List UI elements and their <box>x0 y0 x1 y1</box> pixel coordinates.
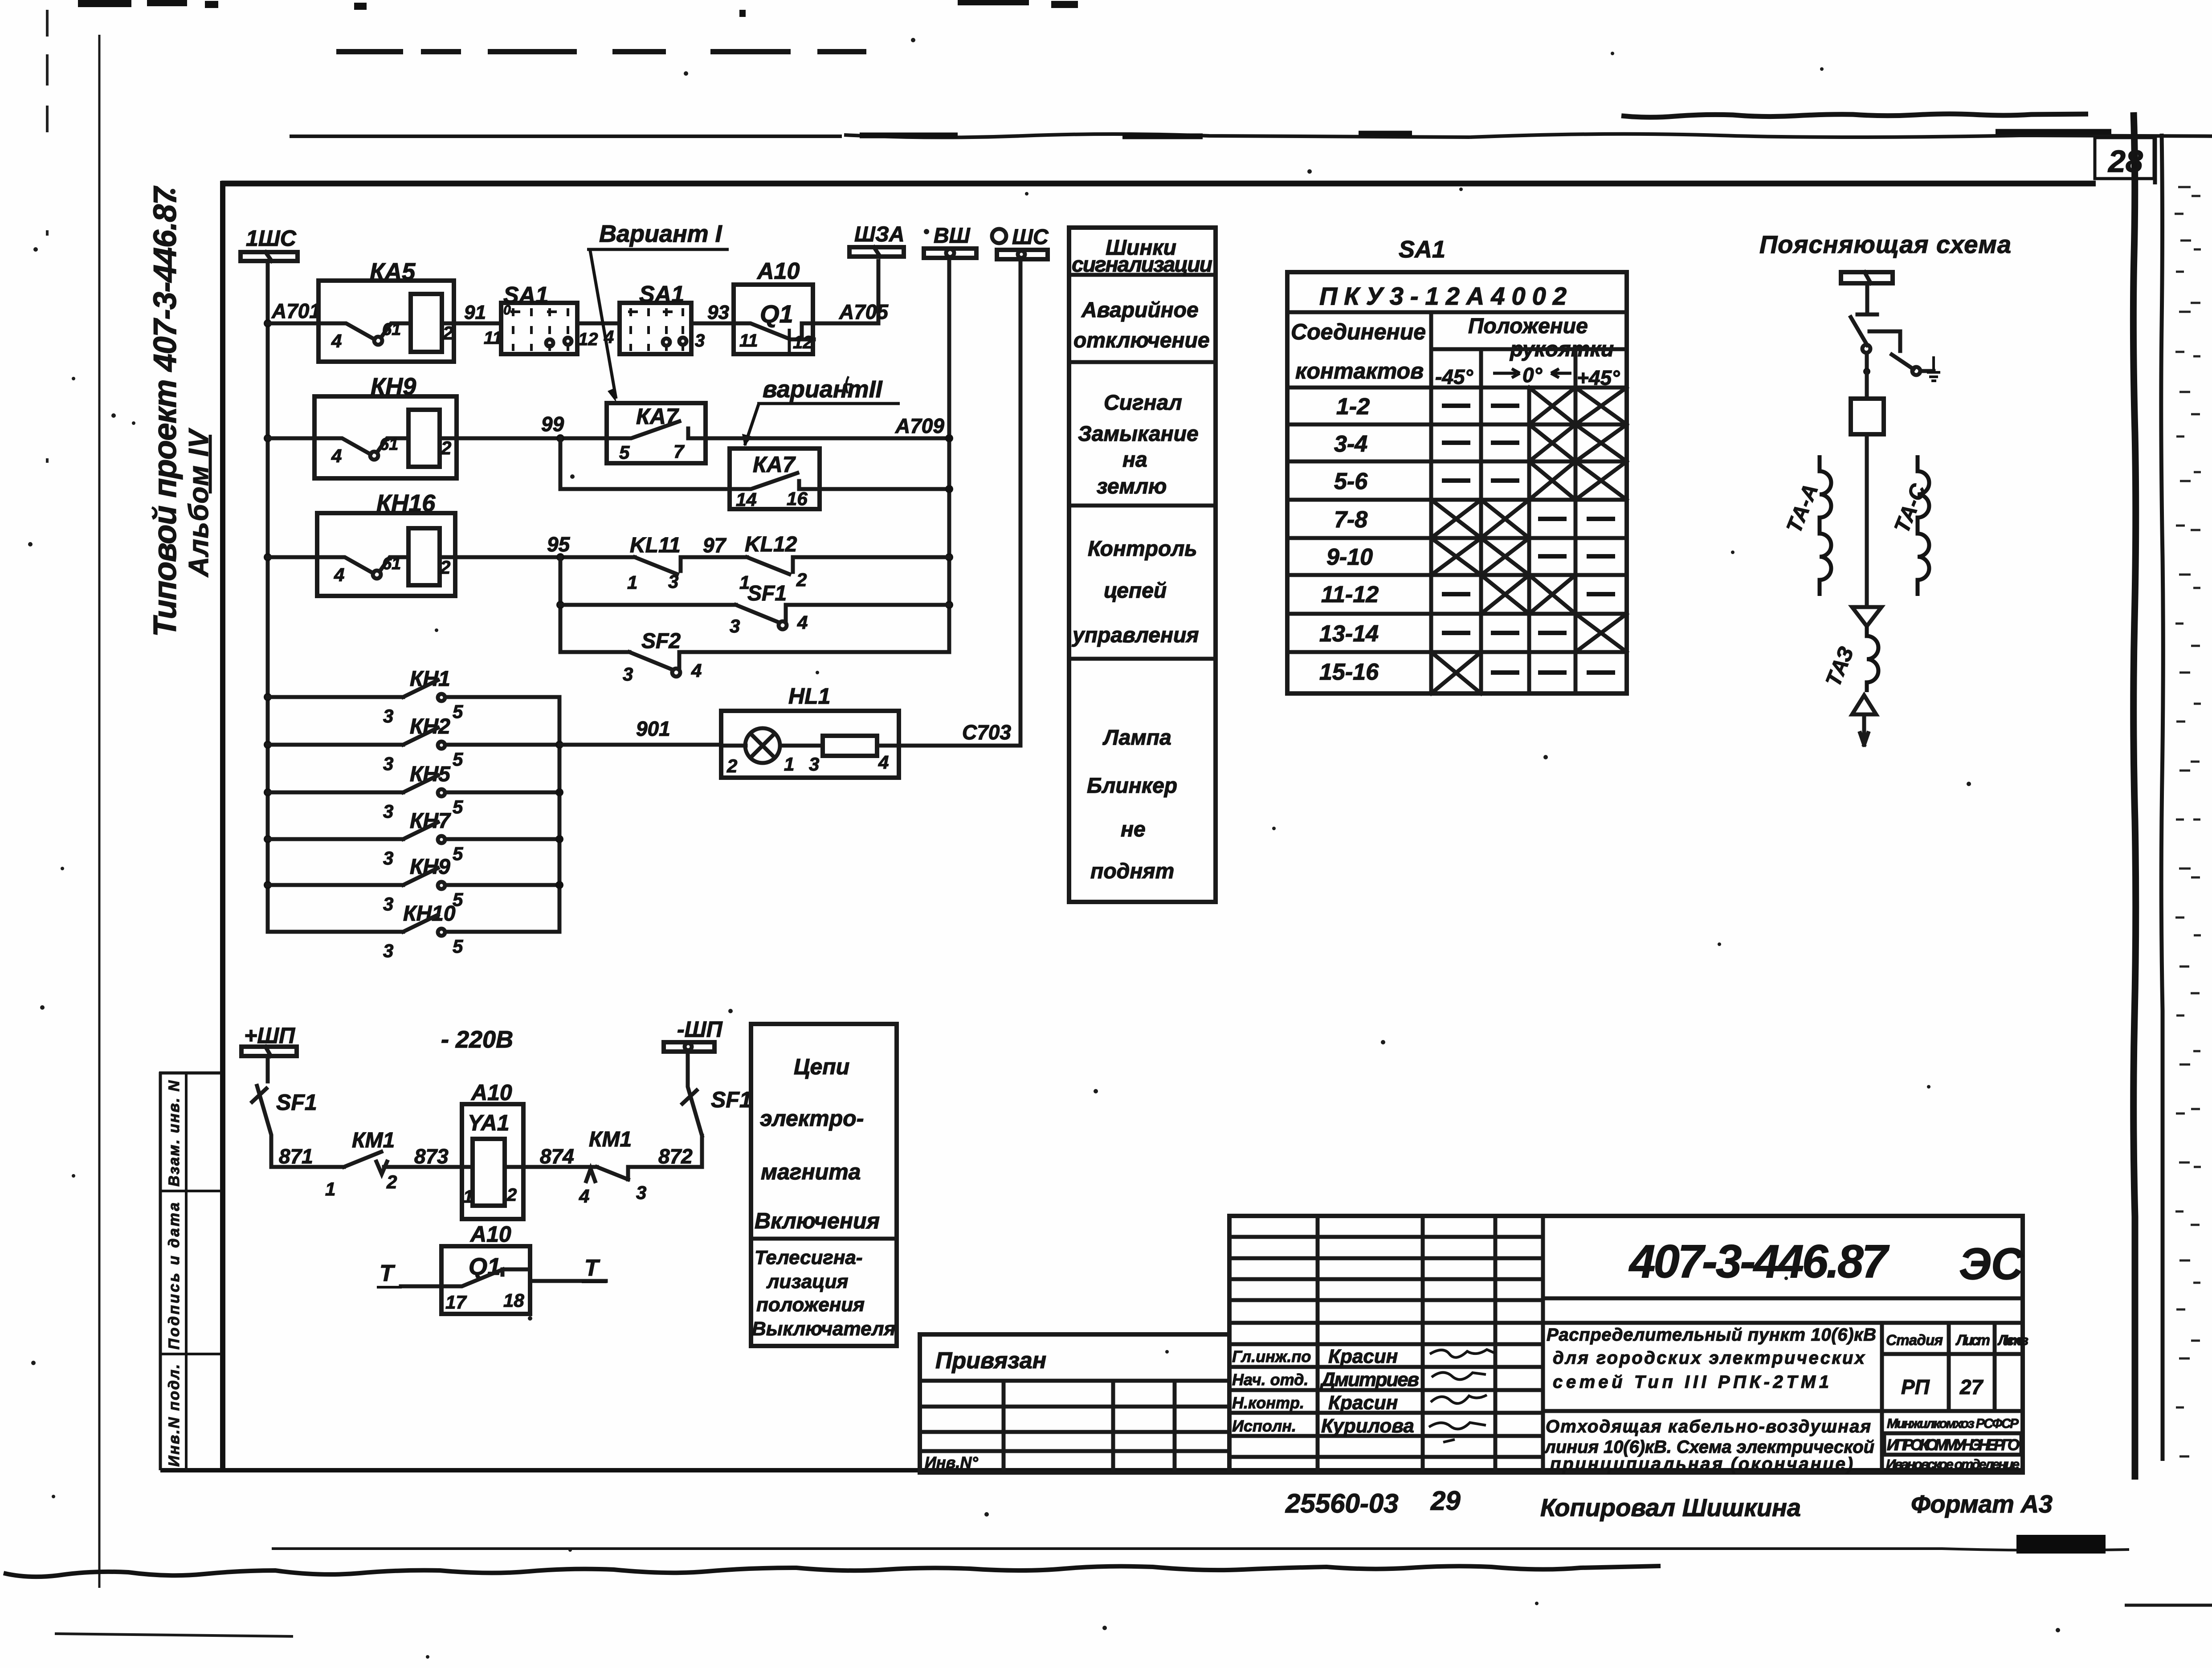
svg-text:9-10: 9-10 <box>1326 544 1373 570</box>
svg-text:7-8: 7-8 <box>1334 507 1367 533</box>
right edge hatch noise <box>2175 187 2201 1456</box>
svg-text:Сигнал: Сигнал <box>1104 391 1182 415</box>
svg-text:КН9: КН9 <box>371 373 416 400</box>
bus +ShP bar <box>241 1047 297 1056</box>
stamp strip inner divider <box>185 1072 188 1470</box>
svg-text:1: 1 <box>784 754 794 775</box>
org box <box>1884 1433 2021 1455</box>
node subladder SF1 <box>556 601 564 609</box>
svg-text:3: 3 <box>730 616 740 636</box>
signature 1 <box>1430 1350 1495 1358</box>
svg-text:Аварийное: Аварийное <box>1081 298 1199 322</box>
wire KH1 row <box>268 695 403 699</box>
breaker contact SF2 <box>623 629 702 685</box>
svg-text:18: 18 <box>503 1290 524 1311</box>
node KH9L <box>264 881 272 889</box>
SA1 dashes col2 <box>1491 406 1519 673</box>
svg-text:97: 97 <box>703 534 727 557</box>
wire to junction <box>1865 353 1869 371</box>
SA1 dashes col3 <box>1538 519 1567 673</box>
svg-text:Соединение: Соединение <box>1291 319 1426 344</box>
TITLEBLOCK <box>920 1216 2053 1521</box>
svg-text:Красин: Красин <box>1328 1346 1398 1367</box>
node row2 <box>264 434 272 442</box>
svg-text:1-2: 1-2 <box>1336 394 1370 420</box>
wire 901 <box>559 743 721 747</box>
svg-text:5: 5 <box>453 843 463 864</box>
node VSh KL <box>945 553 953 561</box>
svg-text:5: 5 <box>453 749 463 770</box>
svg-text:лизация: лизация <box>766 1271 848 1293</box>
wire 99 <box>457 436 607 440</box>
stamp strip divider 1 <box>159 1190 221 1192</box>
SIGNALBOX <box>1069 228 1216 902</box>
wire 95 row3 <box>268 555 317 559</box>
contactor contact KM1 second <box>579 1128 646 1207</box>
svg-text:поднят: поднят <box>1090 860 1174 883</box>
breaker SF1 left <box>252 1086 317 1167</box>
svg-text:ЭС: ЭС <box>1959 1239 2024 1289</box>
svg-text:874: 874 <box>540 1145 574 1168</box>
wire T right <box>530 1279 606 1283</box>
svg-text:цепей: цепей <box>1104 579 1167 603</box>
button contact KH7 <box>383 809 463 869</box>
bus 1ShS bar <box>241 252 298 261</box>
wire 871 <box>271 1165 344 1169</box>
svg-text:901: 901 <box>636 717 670 740</box>
solenoid YA1 box A10 <box>462 1080 523 1219</box>
LOWERLEFT <box>241 1017 897 1346</box>
svg-text:Подпись и дата: Подпись и дата <box>166 1203 183 1350</box>
SCHEMATIC2 <box>268 667 1011 961</box>
earthing switch blade <box>1892 355 1914 369</box>
svg-text:сигнализации: сигнализации <box>1072 253 1212 277</box>
svg-text:3: 3 <box>383 801 393 822</box>
svg-text:28: 28 <box>2107 144 2143 179</box>
svg-text:РП: РП <box>1901 1375 1930 1399</box>
SA1 angle divider 2 <box>1574 349 1578 693</box>
node row1 <box>264 319 272 327</box>
svg-text:13-14: 13-14 <box>1319 621 1379 647</box>
node row3 <box>264 553 272 561</box>
wire 95 <box>455 555 635 559</box>
svg-text:SA1: SA1 <box>1399 236 1445 263</box>
breaker box <box>1851 399 1884 434</box>
svg-text:Ивановское отделение: Ивановское отделение <box>1886 1456 2020 1472</box>
SA1 body divider mid <box>1527 387 1531 693</box>
svg-text:11-12: 11-12 <box>1321 582 1379 608</box>
svg-text:Т: Т <box>380 1260 396 1286</box>
button contact KH2 <box>383 715 463 774</box>
title block upper row lines <box>1229 1237 1543 1300</box>
node earthing branch <box>1863 368 1870 375</box>
album underline <box>209 435 212 493</box>
node rail KH5 <box>555 788 563 796</box>
svg-text:Положение: Положение <box>1468 314 1588 338</box>
svg-text:15-16: 15-16 <box>1319 659 1379 685</box>
bottom-left stray line <box>55 1634 293 1636</box>
svg-text:Взам. инв. N: Взам. инв. N <box>166 1080 183 1187</box>
svg-text:отключение: отключение <box>1073 329 1210 352</box>
svg-text:ШЗА: ШЗА <box>854 223 905 246</box>
svg-text:Q1: Q1 <box>760 300 793 328</box>
svg-text:- 220В: - 220В <box>441 1026 513 1053</box>
svg-text:землю: землю <box>1097 475 1167 498</box>
node VSh SF1 <box>945 601 953 609</box>
svg-text:КН9: КН9 <box>410 855 450 879</box>
relay contact KL12 <box>739 533 807 593</box>
node variant branch <box>556 434 564 442</box>
svg-text:Инв.N подл.: Инв.N подл. <box>166 1364 183 1467</box>
svg-text:ШС: ШС <box>1012 225 1049 249</box>
svg-text:1ШС: 1ШС <box>246 226 297 251</box>
frame left heavy line <box>220 181 225 1471</box>
svg-text:ТА-С: ТА-С <box>1890 480 1931 536</box>
signal box header text <box>1072 236 1212 277</box>
svg-text:А709: А709 <box>895 414 944 437</box>
svg-text:Лист: Лист <box>1955 1332 1990 1348</box>
svg-text:Блинкер: Блинкер <box>1087 774 1177 798</box>
signature 2 <box>1432 1372 1486 1379</box>
wire A709 <box>706 436 949 440</box>
breaker contact SF1 <box>730 582 808 636</box>
svg-text:2: 2 <box>726 755 737 776</box>
svg-text:КН10: КН10 <box>403 902 456 926</box>
SA1 table outer box <box>1287 272 1627 693</box>
bus ShS bar <box>997 250 1048 259</box>
svg-text:1: 1 <box>463 1187 473 1207</box>
svg-text:Красин: Красин <box>1328 1392 1398 1414</box>
signal box divider 4 <box>1069 657 1216 661</box>
bus ShS circle symbol <box>992 229 1006 243</box>
wire KH right rail <box>558 697 562 932</box>
label T right underline <box>582 1281 607 1283</box>
svg-text:5: 5 <box>453 796 463 817</box>
svg-text:3: 3 <box>636 1182 646 1203</box>
wire KH7 right <box>445 837 559 841</box>
svg-text:КН2: КН2 <box>410 715 450 738</box>
cable termination lower <box>1852 695 1876 714</box>
svg-text:контактов: контактов <box>1295 359 1424 383</box>
torn top right wavy line <box>1621 114 2088 118</box>
explain bus stub <box>1857 283 1877 314</box>
cable termination upper <box>1852 607 1881 626</box>
svg-text:12: 12 <box>793 333 813 352</box>
small f mark <box>844 376 852 393</box>
breaker SF1 right <box>682 1052 752 1136</box>
svg-text:Исполн.: Исполн. <box>1232 1417 1296 1435</box>
breaker aux Q1 box A10 <box>734 285 814 354</box>
svg-text:5-6: 5-6 <box>1334 469 1368 494</box>
svg-text:Привязан: Привязан <box>935 1348 1046 1374</box>
feeder line <box>1865 434 1869 606</box>
wire SF2 to VSh rail <box>679 650 949 654</box>
svg-text:Гл.инж.по: Гл.инж.по <box>1232 1347 1311 1366</box>
wire KH7 row <box>268 837 403 841</box>
svg-text:2: 2 <box>796 569 807 590</box>
svg-text:KL12: KL12 <box>745 533 797 556</box>
svg-text:Копировал Шишкина: Копировал Шишкина <box>1540 1493 1801 1521</box>
title block stage header line <box>1882 1352 2023 1356</box>
top line smudges <box>860 132 2111 136</box>
svg-text:0°: 0° <box>1522 363 1543 387</box>
left page dashed border <box>46 10 49 463</box>
svg-text:4: 4 <box>331 330 342 351</box>
svg-text:4: 4 <box>331 445 342 466</box>
wire 874 <box>523 1165 597 1169</box>
svg-text:Замыкание: Замыкание <box>1078 422 1199 446</box>
svg-text:93: 93 <box>707 302 729 323</box>
bottom thin line <box>272 1549 2129 1550</box>
svg-text:А10: А10 <box>756 258 800 284</box>
svg-text:Т: Т <box>584 1255 600 1281</box>
wire 91 <box>454 322 501 326</box>
node VSh KA7II <box>945 485 953 493</box>
SA1 cross cells col3-4 rows 1-3 <box>1529 387 1627 500</box>
svg-text:4: 4 <box>579 1186 589 1207</box>
button contact KH10 <box>383 902 463 961</box>
relay contact KL11 <box>627 534 681 593</box>
wire T left <box>401 1285 441 1289</box>
svg-text:КН1: КН1 <box>410 667 450 691</box>
svg-text:2: 2 <box>506 1185 517 1205</box>
svg-text:1: 1 <box>627 572 637 593</box>
svg-text:Распределительный пункт 10(6)к: Распределительный пункт 10(6)кВ <box>1547 1325 1876 1345</box>
title block main split line <box>1229 1321 2023 1325</box>
svg-text:2: 2 <box>442 322 453 343</box>
svg-text:2: 2 <box>440 557 450 578</box>
svg-text:873: 873 <box>414 1145 449 1168</box>
LEFTTEXT <box>147 186 214 637</box>
svg-text:871: 871 <box>279 1145 313 1168</box>
relay KH16 <box>317 490 455 596</box>
wire SF1 to VSh <box>786 603 949 607</box>
explain busbar <box>1841 272 1893 283</box>
svg-text:7: 7 <box>673 441 685 462</box>
frame bottom heavy line <box>160 1468 2024 1472</box>
svg-text:5: 5 <box>619 442 630 463</box>
SA1 cross cell row 8 <box>1431 652 1481 693</box>
svg-text:Листов: Листов <box>1997 1332 2028 1348</box>
ground <box>1927 356 1940 381</box>
svg-text:4: 4 <box>878 752 889 773</box>
svg-text:ТА-А: ТА-А <box>1782 481 1823 536</box>
svg-text:А701: А701 <box>271 299 321 322</box>
bus VSh vertical wire <box>947 258 951 652</box>
node rail KH7 <box>555 835 563 843</box>
svg-text:вариантII: вариантII <box>763 376 883 403</box>
svg-text:SF1: SF1 <box>711 1087 752 1112</box>
svg-text:Инв.N°: Инв.N° <box>925 1453 978 1472</box>
wire 97 <box>681 555 747 559</box>
svg-text:16: 16 <box>787 488 808 509</box>
svg-text:Контроль: Контроль <box>1088 537 1197 561</box>
svg-text:Курилова: Курилова <box>1321 1415 1414 1437</box>
signal box text avariynoe <box>1073 298 1210 352</box>
svg-text:КН16: КН16 <box>376 490 436 517</box>
svg-text:1: 1 <box>325 1179 335 1199</box>
earthing wire <box>1920 369 1934 373</box>
bottom-right short line <box>2125 1604 2212 1607</box>
signal box divider 1 <box>1069 273 1216 277</box>
binding table <box>920 1334 1229 1472</box>
svg-text:на: на <box>1122 448 1147 472</box>
disconnector hinge <box>1862 345 1870 353</box>
main left bus wire <box>266 261 270 932</box>
bottom torn wavy line <box>4 1566 1661 1577</box>
svg-text:3: 3 <box>383 753 393 774</box>
svg-text:3-4: 3-4 <box>1334 431 1367 457</box>
svg-text:4: 4 <box>691 660 702 681</box>
title block row lines lower-left <box>1229 1344 1543 1457</box>
relay contact KA7 variant II <box>730 449 820 510</box>
svg-text:электро-: электро- <box>760 1106 864 1131</box>
SA1TABLE <box>1287 236 1627 693</box>
earthing switch branch wire <box>1869 331 1900 351</box>
top edge scan marks <box>78 2 1078 13</box>
CT TA-A windings <box>1820 455 1831 596</box>
wire A701 <box>268 322 318 326</box>
wire A705 <box>813 261 878 323</box>
stamp strip outer line <box>159 1072 162 1470</box>
svg-text:61: 61 <box>382 320 401 339</box>
CT TA3 windings <box>1867 626 1878 692</box>
svg-text:91: 91 <box>464 302 486 323</box>
svg-text:ИПРОКОММУНЭНЕРГО: ИПРОКОММУНЭНЕРГО <box>1887 1436 2020 1454</box>
page number 28 box <box>2095 138 2154 179</box>
node rail KH9 <box>555 881 563 889</box>
variant II note <box>742 376 900 446</box>
SA1 angle label 0 <box>1493 363 1571 387</box>
left sheet border line <box>98 35 101 1588</box>
signal bus description box <box>1069 228 1216 902</box>
svg-text:Типовой проект 407-3-446.87: Типовой проект 407-3-446.87 <box>147 186 183 637</box>
lamp unit HL1 <box>721 684 899 778</box>
svg-text:не: не <box>1121 818 1146 841</box>
svg-text:3: 3 <box>383 893 393 914</box>
SA1 cross cells col1-2 rows 4-5 <box>1431 500 1529 575</box>
switch SA1 block I <box>501 303 577 354</box>
button contact KH5 <box>383 763 463 822</box>
svg-text:872: 872 <box>658 1145 693 1168</box>
svg-text:КН7: КН7 <box>410 809 451 833</box>
title block doc number line <box>1543 1297 2023 1301</box>
node KH1 <box>264 693 272 701</box>
telecontrol contact Q1 box A10 <box>441 1222 530 1314</box>
SA1 angle header line <box>1431 347 1627 351</box>
variant I note <box>587 220 729 403</box>
wire SF2 row <box>560 650 629 654</box>
title block outer box <box>1229 1216 2023 1472</box>
right frame line at 28 box <box>2153 136 2157 184</box>
svg-text:5: 5 <box>453 936 463 957</box>
svg-text:Вариант I: Вариант I <box>599 220 722 247</box>
svg-text:С703: С703 <box>962 721 1011 744</box>
wire KH10 right <box>445 930 559 934</box>
bus -ShP bar <box>664 1042 714 1052</box>
wire 872 <box>628 1136 702 1167</box>
svg-text:SF2: SF2 <box>641 629 681 653</box>
svg-text:ВШ: ВШ <box>934 224 971 248</box>
electromagnet circuits box <box>751 1024 897 1346</box>
signal box text kontrol <box>1072 537 1199 647</box>
right torn edge main line <box>2133 112 2135 1480</box>
svg-text:25560-03: 25560-03 <box>1285 1489 1399 1518</box>
svg-text:SA1: SA1 <box>503 282 548 308</box>
title block stage dividers <box>1949 1323 1995 1411</box>
wire KH9 row <box>268 883 403 887</box>
SA1 body row lines <box>1287 387 1627 652</box>
bus ShS vertical wire <box>899 259 1020 746</box>
wire from +ShP <box>266 1056 270 1081</box>
svg-text:Минжилкомхоз РСФСР: Минжилкомхоз РСФСР <box>1887 1416 2019 1431</box>
signature 3 <box>1431 1395 1487 1403</box>
svg-text:61: 61 <box>382 555 401 573</box>
svg-text:Лампа: Лампа <box>1102 726 1171 750</box>
signal box divider 2 <box>1069 360 1216 364</box>
svg-text:-ШП: -ШП <box>677 1017 723 1042</box>
wire KA7II to VSh <box>820 487 949 491</box>
node VSh A709 <box>945 434 953 442</box>
svg-text:ПКУ3-12А4002: ПКУ3-12А4002 <box>1319 282 1567 310</box>
svg-text:Выключателя: Выключателя <box>752 1318 895 1340</box>
SA1 dashes col4 <box>1587 519 1615 673</box>
earthing switch hinge <box>1912 367 1920 375</box>
wire 93 <box>691 322 734 326</box>
svg-text:КМ1: КМ1 <box>589 1128 632 1151</box>
right torn second line <box>2161 134 2163 1461</box>
svg-text:3: 3 <box>623 664 633 685</box>
svg-text:для городских электрических: для городских электрических <box>1553 1348 1865 1368</box>
wire KL to VSh <box>793 555 949 559</box>
STRIP <box>159 1072 221 1470</box>
svg-text:А10: А10 <box>470 1080 512 1105</box>
svg-text:магнита: магнита <box>761 1159 861 1184</box>
disconnector blade <box>1851 317 1867 345</box>
feeder line end arrow <box>1860 714 1868 745</box>
svg-text:14: 14 <box>736 489 757 510</box>
contactor contact KM1 <box>325 1129 397 1199</box>
svg-text:управления: управления <box>1072 624 1199 647</box>
svg-text:А10: А10 <box>469 1222 511 1247</box>
svg-text:99: 99 <box>541 412 564 436</box>
wire 873 <box>384 1165 462 1169</box>
svg-text:А705: А705 <box>839 300 889 323</box>
signal box text lampa <box>1087 726 1177 883</box>
title block desc divider <box>1543 1409 2023 1413</box>
stamp strip divider 2 <box>159 1353 221 1355</box>
wire KH9 right <box>445 883 559 887</box>
wire 99 row2 left <box>268 436 314 440</box>
svg-text:-45°: -45° <box>1435 365 1473 388</box>
svg-text:положения: положения <box>756 1294 865 1316</box>
svg-text:КА7: КА7 <box>753 452 796 477</box>
svg-text:Нач. отд.: Нач. отд. <box>1232 1370 1308 1389</box>
label T left underline <box>377 1286 402 1289</box>
wire KH5 row <box>268 791 403 795</box>
svg-text:4: 4 <box>334 564 344 585</box>
svg-text:2: 2 <box>386 1171 397 1192</box>
svg-text:11: 11 <box>739 331 758 351</box>
node KH2 <box>264 741 272 749</box>
title block middle divider <box>1880 1323 1884 1472</box>
svg-text:3: 3 <box>695 331 705 351</box>
wire subladder rail <box>559 557 563 652</box>
wire KH10 row <box>268 930 403 934</box>
wire KH2 row <box>268 743 403 747</box>
wire KH2 right to rail <box>445 743 559 747</box>
SA1 cross cell row 7 <box>1575 614 1627 652</box>
